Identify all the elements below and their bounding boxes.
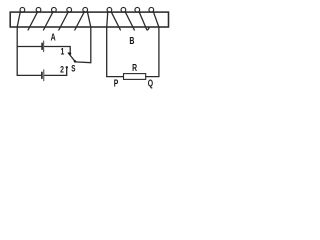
svg-text:P: P — [114, 77, 119, 89]
battery cell (upper branch) short plate — [41, 43, 43, 49]
coil B turn loop 2 — [121, 7, 126, 12]
coil B turn loop 4 — [149, 7, 154, 12]
wire: coil B left lead down to resistor loop — [107, 11, 124, 76]
wire: upper battery branch to contact 1 — [17, 46, 41, 48]
contact 1 dot — [69, 52, 72, 55]
coil A turn loop 2 — [36, 7, 41, 12]
svg-text:S: S — [71, 63, 75, 73]
coil B diagonal turn 3 (with hook) — [139, 12, 149, 30]
switch pole dot — [74, 60, 77, 63]
iron core — [10, 12, 168, 27]
coil B diagonal turn 1 — [111, 12, 120, 30]
svg-text:2: 2 — [60, 63, 64, 74]
wire: coil A right lead down then left to switch pole — [75, 11, 91, 62]
svg-text:Q: Q — [148, 77, 154, 89]
coil B diagonal turn 2 — [125, 12, 134, 30]
coil A diagonal turn 5 — [75, 12, 85, 30]
battery cell (lower branch) long plate — [43, 70, 45, 81]
svg-text:R: R — [132, 62, 137, 74]
coil A turn loop 3 — [52, 7, 57, 12]
svg-text:B: B — [129, 35, 134, 47]
wire: coil B right lead down to resistor loop — [146, 11, 159, 76]
battery cell (upper branch) long plate — [43, 41, 45, 52]
svg-text:1: 1 — [60, 45, 64, 56]
contact 2 dot — [66, 66, 68, 68]
coil A turn loop 5 — [83, 7, 88, 12]
coil A diagonal turn 2 — [28, 12, 38, 30]
coil A turn loop 1 — [20, 7, 25, 12]
coil B turn loop 3 — [135, 7, 140, 12]
wire: lower battery branch — [17, 74, 41, 76]
coil B turn loop 1 — [107, 7, 112, 12]
switch S blade — [68, 53, 75, 61]
wire: coil A left lead down to battery branches — [17, 11, 20, 75]
resistor R box — [124, 74, 146, 80]
battery cell (lower branch) short plate — [41, 72, 43, 78]
coil A diagonal turn 3 — [44, 12, 54, 30]
svg-text:A: A — [51, 31, 57, 43]
coil A diagonal turn 4 — [59, 12, 69, 30]
coil A turn loop 4 — [67, 7, 72, 12]
